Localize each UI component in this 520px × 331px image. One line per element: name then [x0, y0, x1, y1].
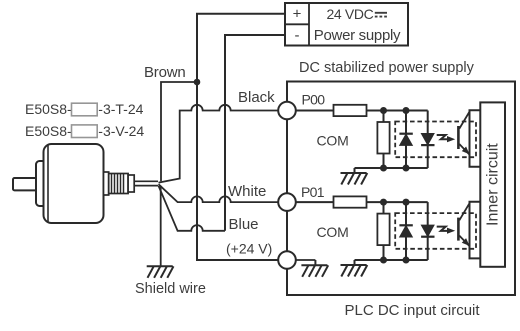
PLC enclosure box	[287, 82, 515, 296]
opto LED up ch2	[399, 202, 412, 260]
resistor shunt ch1	[377, 111, 389, 169]
junction dot ch2 b	[403, 199, 410, 206]
opto-coupler dashed box ch1	[395, 122, 476, 158]
light arrow ch1	[437, 135, 456, 142]
opto LED up ch1	[399, 111, 412, 169]
junction dot ch2 a	[380, 199, 387, 206]
terminal +24V	[278, 251, 296, 269]
svg-text:Power supply: Power supply	[314, 27, 401, 44]
opto-coupler dashed box ch2	[395, 213, 476, 249]
wire shield	[160, 186, 162, 266]
wire blue	[159, 186, 226, 231]
model label E50S8-x-3-V-24	[25, 123, 144, 139]
phototransistor ch1	[458, 112, 469, 155]
wire V+ from supply plus terminal down to +24V line	[197, 14, 285, 260]
label Black	[238, 89, 275, 106]
svg-text:COM: COM	[317, 132, 349, 148]
wire brown	[161, 82, 197, 181]
wire P00 terminal to resistor	[296, 110, 334, 112]
label minus terminal	[295, 27, 300, 44]
ground COM ch1	[341, 168, 368, 185]
resistor input ch2	[334, 196, 367, 207]
caption DC stabilized power supply	[299, 60, 475, 76]
wire white	[159, 184, 279, 202]
connector bracket ch2 to inner circuit	[470, 202, 481, 259]
svg-text:-3-T-24: -3-T-24	[98, 101, 143, 117]
opto LED down ch1	[421, 111, 434, 169]
junction dot ch1 d	[403, 165, 410, 172]
svg-text:Inner circuit: Inner circuit	[484, 143, 501, 226]
resistor shunt ch2	[377, 202, 389, 260]
label plus terminal	[293, 6, 302, 23]
svg-text:White: White	[228, 183, 266, 200]
svg-text:Shield wire: Shield wire	[135, 281, 206, 297]
label Power supply	[314, 27, 401, 44]
wire P01 terminal to resistor	[296, 201, 334, 203]
label Blue	[229, 216, 259, 233]
svg-text:COM: COM	[317, 224, 349, 240]
caption PLC DC input circuit	[345, 302, 481, 319]
label COM ch2	[317, 224, 349, 240]
svg-text:E50S8-: E50S8-	[25, 123, 72, 139]
svg-text:24 VDC: 24 VDC	[327, 6, 374, 22]
inner circuit box	[480, 102, 505, 266]
wire bottom rail ch1	[355, 167, 428, 169]
encoder cable	[134, 181, 158, 185]
encoder connector	[104, 172, 135, 195]
label 24 VDC	[327, 6, 374, 22]
model label E50S8-x-3-T-24	[25, 101, 144, 117]
light arrow ch2	[437, 227, 456, 234]
terminal P00	[278, 102, 296, 120]
label P01	[301, 184, 325, 200]
label +24 V	[226, 240, 272, 256]
svg-text:Brown: Brown	[144, 64, 186, 81]
power supply box	[285, 3, 408, 46]
label Inner circuit	[484, 143, 501, 226]
encoder flange	[36, 161, 47, 206]
svg-text:PLC DC input circuit: PLC DC input circuit	[345, 302, 481, 319]
wire top rail ch1	[367, 110, 428, 112]
label Shield wire	[135, 281, 206, 297]
svg-text:P01: P01	[301, 184, 325, 200]
junction dot ch1 b	[403, 107, 410, 114]
wire 0V from supply minus terminal down to blue wire	[225, 35, 285, 231]
wire black	[159, 105, 279, 183]
encoder shaft	[13, 178, 38, 190]
label COM ch1	[317, 132, 349, 148]
encoder body	[44, 144, 104, 223]
svg-text:+: +	[293, 6, 302, 23]
ground COM ch2	[341, 260, 368, 277]
junction dot ch2 d	[403, 257, 410, 264]
wire bottom rail ch2	[355, 259, 428, 261]
label White	[228, 183, 266, 200]
svg-text:DC stabilized power supply: DC stabilized power supply	[299, 60, 475, 76]
junction dot ch1 a	[380, 107, 387, 114]
junction dot brown/V+	[194, 79, 201, 86]
connector bracket ch1 to inner circuit	[470, 110, 481, 167]
svg-text:Blue: Blue	[229, 216, 259, 233]
junction dot ch2 c	[380, 257, 387, 264]
ground shield wire	[147, 266, 174, 278]
svg-text:P00: P00	[302, 91, 326, 107]
svg-text:Black: Black	[238, 89, 275, 106]
opto LED down ch2	[421, 202, 434, 260]
junction dot ch1 c	[380, 165, 387, 172]
DC symbol	[375, 13, 387, 17]
resistor input ch1	[334, 105, 367, 116]
ground +24V	[301, 260, 328, 277]
svg-text:-3-V-24: -3-V-24	[98, 123, 144, 139]
svg-text:-: -	[295, 27, 300, 44]
phototransistor ch2	[458, 203, 469, 246]
label P00	[302, 91, 326, 107]
wire +24V terminal to ground	[296, 259, 316, 261]
label Brown	[144, 64, 186, 81]
wire top rail ch2	[367, 201, 428, 203]
svg-text:(+24 V): (+24 V)	[226, 240, 272, 256]
terminal P01	[278, 193, 296, 211]
svg-text:E50S8-: E50S8-	[25, 101, 72, 117]
